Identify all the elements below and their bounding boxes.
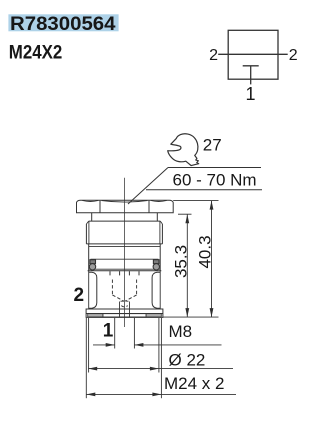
svg-text:60 - 70 Nm: 60 - 70 Nm — [173, 171, 257, 190]
svg-text:R78300564: R78300564 — [10, 14, 116, 35]
svg-text:M24 x 2: M24 x 2 — [164, 374, 224, 393]
svg-text:M8: M8 — [169, 322, 193, 341]
svg-text:2: 2 — [209, 47, 218, 64]
svg-text:2: 2 — [74, 285, 85, 306]
svg-text:27: 27 — [203, 136, 222, 155]
svg-text:1: 1 — [103, 320, 114, 341]
svg-text:2: 2 — [289, 47, 298, 64]
svg-text:40.3: 40.3 — [196, 235, 215, 268]
svg-text:M24X2: M24X2 — [9, 43, 63, 64]
svg-text:1: 1 — [245, 84, 255, 104]
svg-text:Ø 22: Ø 22 — [169, 351, 206, 370]
svg-text:35.3: 35.3 — [172, 245, 191, 278]
